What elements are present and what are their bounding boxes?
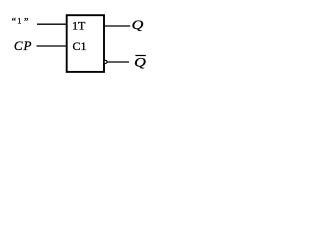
wire T input xyxy=(37,23,66,25)
wire CP input xyxy=(37,45,67,47)
output label Q-bar xyxy=(134,56,146,70)
wire Q output xyxy=(105,25,131,27)
svg-text:1T: 1T xyxy=(72,18,86,32)
flip-flop box U1 xyxy=(67,15,104,72)
svg-text:Q: Q xyxy=(132,19,144,33)
input label CP xyxy=(14,38,33,53)
svg-text:”: ” xyxy=(24,17,28,28)
svg-text:C1: C1 xyxy=(73,39,87,53)
svg-text:1: 1 xyxy=(17,15,21,25)
pin label 1T xyxy=(72,18,86,32)
output label Q xyxy=(132,19,144,33)
pin label C1 xyxy=(73,39,87,53)
inversion bubble xyxy=(104,60,107,63)
wire Q-bar output xyxy=(107,61,129,63)
svg-text:Q: Q xyxy=(134,56,146,70)
input label "1" xyxy=(12,15,29,28)
svg-text:“: “ xyxy=(12,17,17,28)
svg-text:CP: CP xyxy=(14,38,33,53)
